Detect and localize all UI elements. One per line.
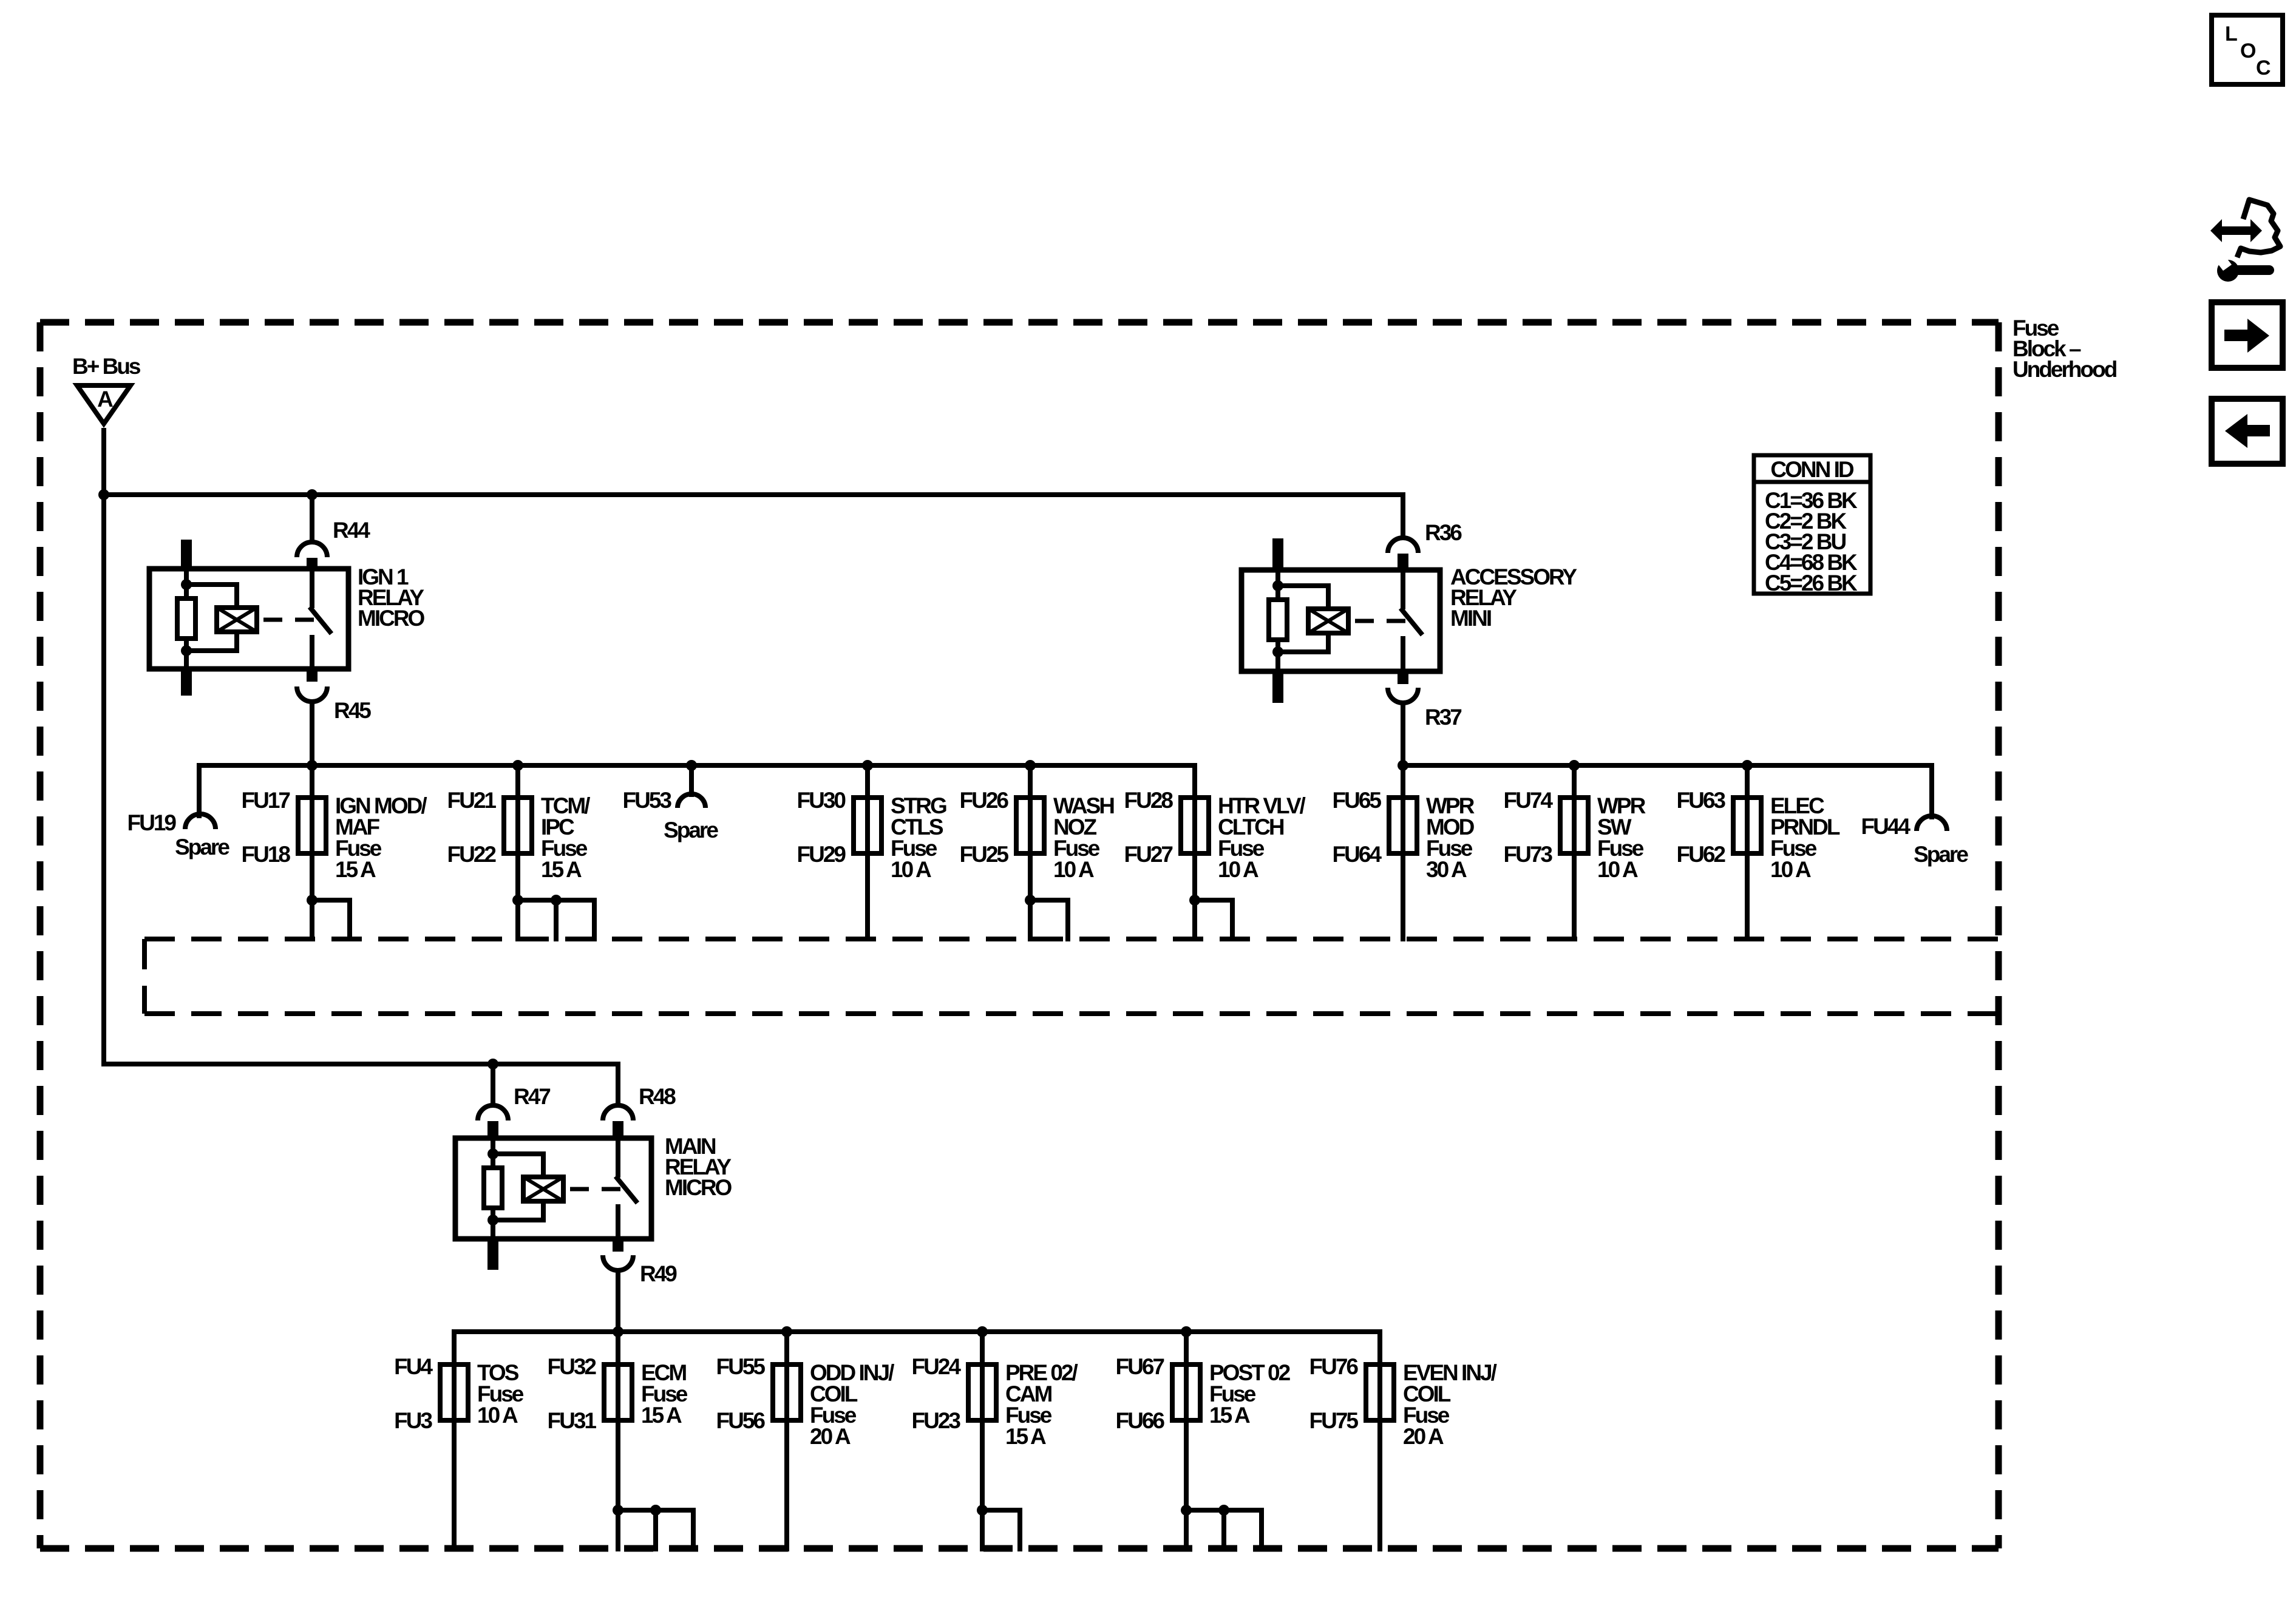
svg-text:O: O (2240, 39, 2256, 63)
fuse FU30/FU29 STRG CTLS (797, 760, 946, 941)
wire right fuse bus with FU44 drop (1403, 765, 1932, 819)
fuse FU65/FU64 WPR MOD (1333, 760, 1475, 941)
fuse FU63/FU62 ELEC PRNDL (1677, 760, 1840, 941)
svg-text:FU28: FU28 (1124, 788, 1173, 813)
svg-text:FU21: FU21 (447, 788, 497, 813)
svg-text:20 A: 20 A (810, 1424, 851, 1449)
svg-text:FU29: FU29 (797, 842, 846, 867)
svg-text:C5=26 BK: C5=26 BK (1765, 571, 1858, 595)
inner dashed channel boundary (144, 939, 1999, 1014)
svg-text:FU63: FU63 (1677, 788, 1726, 813)
svg-text:10 A: 10 A (891, 857, 931, 882)
svg-text:10 A: 10 A (477, 1403, 518, 1428)
fuse block underhood dashed boundary box (40, 322, 1999, 1548)
connector R45 (297, 686, 371, 765)
fuse FU21/FU22 TCM/IPC (447, 760, 594, 941)
fuse FU55/FU56 ODD INJ/COIL (716, 1326, 895, 1551)
svg-text:FU55: FU55 (716, 1354, 766, 1379)
svg-text:Spare: Spare (1914, 842, 1968, 867)
fuse FU17/FU18 IGN MOD/MAF (242, 760, 427, 941)
svg-text:C: C (2256, 56, 2271, 80)
fuse FU74/FU73 WPR SW (1504, 760, 1646, 941)
node A: B+ Bus power symbol (72, 354, 141, 424)
svg-text:R44: R44 (333, 518, 370, 543)
svg-text:A: A (97, 387, 113, 412)
fuse FU4/FU3 TOS (394, 1354, 524, 1433)
fuse FU26/FU25 WASH NOZ (960, 760, 1115, 941)
svg-text:FU75: FU75 (1309, 1408, 1359, 1433)
junction dot (487, 1059, 498, 1070)
spare FU53 (623, 760, 719, 842)
svg-text:FU76: FU76 (1309, 1354, 1359, 1379)
svg-text:MICRO: MICRO (358, 606, 425, 631)
svg-text:FU18: FU18 (242, 842, 291, 867)
adjust/tool icon (double arrow, panel outline, wrench) (2210, 200, 2280, 282)
fuse FU67/FU66 POST 02 (1116, 1326, 1291, 1551)
wire top bus horizontal with drop to R36 (104, 495, 1403, 538)
wire left fuse bus with FU19 and FU28 drops (199, 765, 1195, 941)
svg-text:FU27: FU27 (1124, 842, 1173, 867)
svg-text:FU67: FU67 (1116, 1354, 1164, 1379)
svg-text:FU4: FU4 (394, 1354, 433, 1379)
svg-text:10 A: 10 A (1218, 857, 1258, 882)
fuse FU24/FU23 PRE 02/CAM (912, 1326, 1078, 1551)
spare FU44 (1861, 814, 1969, 867)
svg-text:FU19: FU19 (127, 810, 177, 835)
connector R37 (1388, 688, 1461, 765)
svg-text:FU66: FU66 (1116, 1408, 1165, 1433)
svg-text:FU30: FU30 (797, 788, 846, 813)
svg-text:R47: R47 (514, 1084, 550, 1109)
svg-text:FU62: FU62 (1677, 842, 1726, 867)
svg-text:FU22: FU22 (447, 842, 497, 867)
svg-text:Spare: Spare (664, 818, 718, 842)
spare FU19 (127, 810, 230, 859)
svg-text:R48: R48 (639, 1084, 676, 1109)
CONN ID table (1754, 455, 1870, 595)
connector R36 (1388, 520, 1462, 570)
relay coil + contact: MAIN RELAY MICRO (455, 1134, 732, 1270)
svg-text:15 A: 15 A (1005, 1424, 1046, 1449)
svg-text:R37: R37 (1425, 705, 1461, 730)
svg-text:10 A: 10 A (1770, 857, 1811, 882)
svg-text:FU25: FU25 (960, 842, 1009, 867)
svg-text:FU56: FU56 (716, 1408, 766, 1433)
svg-text:15 A: 15 A (335, 857, 376, 882)
svg-text:15 A: 15 A (541, 857, 582, 882)
svg-text:MINI: MINI (1450, 606, 1491, 631)
svg-text:Spare: Spare (175, 835, 229, 859)
junction dot (98, 489, 109, 500)
label Fuse Block - Underhood (2012, 316, 2117, 382)
svg-text:MICRO: MICRO (665, 1175, 732, 1200)
connector R49 (603, 1255, 677, 1332)
svg-text:10 A: 10 A (1597, 857, 1638, 882)
LOC page icon (2212, 15, 2283, 84)
svg-text:B+ Bus: B+ Bus (72, 354, 141, 379)
connector R44 (297, 495, 370, 570)
nav icon arrow right (2212, 302, 2283, 368)
svg-text:Underhood: Underhood (2012, 357, 2117, 382)
svg-text:CONN ID: CONN ID (1770, 457, 1854, 482)
connector R47 (478, 1064, 550, 1138)
svg-text:L: L (2225, 22, 2237, 46)
fuse FU76/FU75 EVEN INJ/COIL (1309, 1354, 1497, 1449)
svg-text:30 A: 30 A (1426, 857, 1467, 882)
svg-text:FU24: FU24 (912, 1354, 962, 1379)
svg-text:FU65: FU65 (1333, 788, 1382, 813)
svg-text:20 A: 20 A (1403, 1424, 1444, 1449)
svg-text:15 A: 15 A (1209, 1403, 1250, 1428)
svg-text:R36: R36 (1425, 520, 1462, 545)
svg-text:FU64: FU64 (1333, 842, 1382, 867)
wire bottom fuse bus with FU4 and FU76 drops (454, 1332, 1380, 1551)
svg-text:FU3: FU3 (394, 1408, 432, 1433)
svg-text:FU53: FU53 (623, 788, 672, 813)
svg-text:R49: R49 (640, 1261, 677, 1286)
wire B+ bus vertical down and lower horizontal to main relay (104, 428, 618, 1105)
svg-text:R45: R45 (334, 698, 371, 723)
relay coil + contact: IGN 1 RELAY MICRO (149, 540, 425, 696)
svg-text:FU23: FU23 (912, 1408, 961, 1433)
svg-text:FU31: FU31 (548, 1408, 597, 1433)
svg-text:FU26: FU26 (960, 788, 1009, 813)
svg-text:15 A: 15 A (641, 1403, 682, 1428)
fuse FU28/FU27 HTR VLV/CLTCH (1124, 788, 1306, 941)
svg-text:FU74: FU74 (1504, 788, 1554, 813)
relay coil + contact: ACCESSORY RELAY MINI (1241, 538, 1577, 703)
svg-text:10 A: 10 A (1053, 857, 1094, 882)
svg-text:FU32: FU32 (548, 1354, 597, 1379)
junction dot (307, 489, 318, 500)
fuse FU32/FU31 ECM (548, 1326, 693, 1551)
svg-text:FU17: FU17 (242, 788, 290, 813)
svg-text:FU73: FU73 (1504, 842, 1553, 867)
svg-text:FU44: FU44 (1861, 814, 1911, 839)
connector R48 (603, 1084, 676, 1138)
nav icon arrow left (2212, 399, 2283, 464)
